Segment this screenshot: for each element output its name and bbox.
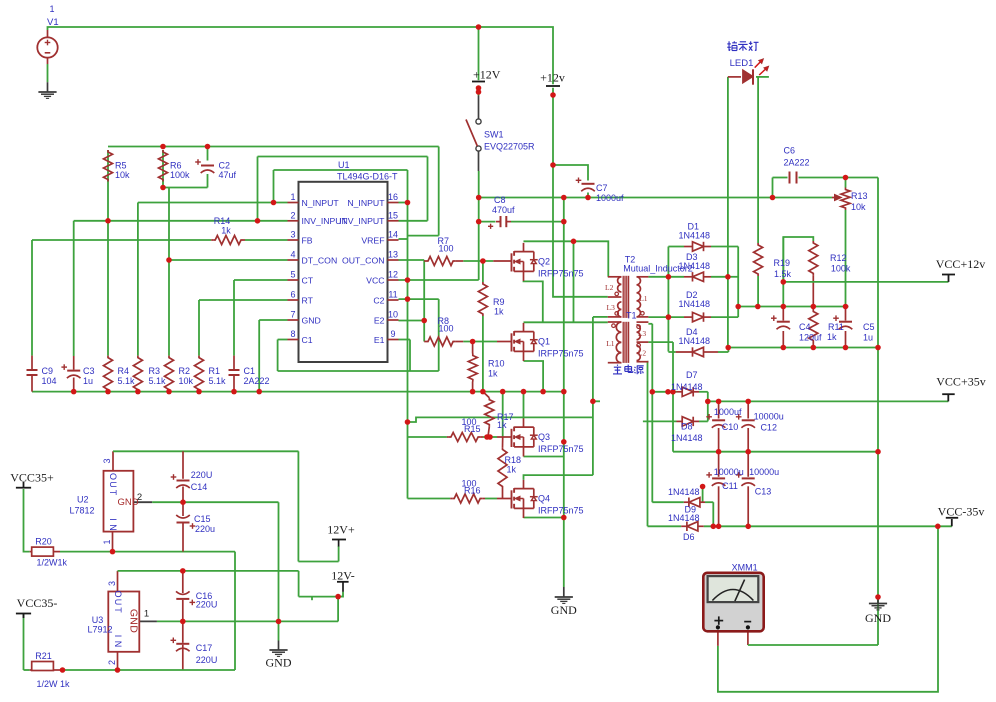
svg-text:1000uf: 1000uf — [714, 407, 742, 417]
svg-text:4: 4 — [290, 250, 295, 260]
svg-text:R11: R11 — [828, 322, 844, 332]
svg-text:RT: RT — [302, 295, 314, 305]
svg-text:N_INPUT: N_INPUT — [347, 198, 385, 208]
svg-text:CT: CT — [302, 275, 314, 285]
svg-text:1N4148: 1N4148 — [679, 231, 711, 241]
svg-text:N: N — [127, 617, 139, 625]
svg-text:220U: 220U — [196, 655, 218, 665]
svg-text:EVQ22705R: EVQ22705R — [484, 142, 535, 152]
svg-text:C4: C4 — [799, 322, 811, 332]
svg-text:R10: R10 — [488, 359, 505, 369]
svg-text:9: 9 — [390, 329, 395, 339]
svg-text:2: 2 — [107, 660, 117, 665]
svg-text:C1: C1 — [302, 335, 313, 345]
svg-text:I: I — [113, 635, 123, 638]
svg-text:C12: C12 — [760, 423, 777, 433]
svg-text:1: 1 — [290, 192, 295, 202]
svg-text:10000u: 10000u — [749, 467, 779, 477]
svg-text:L7812: L7812 — [69, 506, 94, 516]
svg-text:5: 5 — [290, 270, 295, 280]
svg-text:R4: R4 — [118, 366, 130, 376]
svg-text:16: 16 — [388, 192, 398, 202]
svg-text:1u: 1u — [863, 333, 873, 343]
svg-text:Q1: Q1 — [538, 337, 550, 347]
svg-text:U2: U2 — [77, 495, 89, 505]
svg-text:IRFP75n75: IRFP75n75 — [538, 269, 584, 279]
svg-text:1N4148: 1N4148 — [671, 433, 703, 443]
svg-text:FB: FB — [302, 235, 313, 245]
svg-text:100k: 100k — [170, 170, 190, 180]
svg-text:T1: T1 — [626, 311, 637, 321]
svg-text:R6: R6 — [170, 161, 182, 171]
svg-text:L2: L2 — [638, 349, 647, 358]
svg-text:C3: C3 — [83, 366, 95, 376]
svg-text:5.1k: 5.1k — [118, 376, 136, 386]
svg-text:R18: R18 — [505, 455, 522, 465]
svg-text:IRFP75n75: IRFP75n75 — [538, 506, 584, 516]
svg-text:L3: L3 — [638, 329, 647, 338]
svg-text:Mutual_Inductor2: Mutual_Inductor2 — [623, 264, 693, 274]
svg-text:10k: 10k — [115, 170, 130, 180]
svg-text:E2: E2 — [374, 315, 385, 325]
svg-text:C6: C6 — [784, 146, 796, 156]
svg-text:C1: C1 — [244, 366, 256, 376]
svg-text:3: 3 — [107, 581, 117, 586]
svg-text:1000uf: 1000uf — [596, 193, 624, 203]
svg-text:C2: C2 — [219, 161, 231, 171]
svg-text:R2: R2 — [179, 366, 191, 376]
svg-text:47uf: 47uf — [219, 170, 237, 180]
svg-text:104: 104 — [42, 376, 57, 386]
svg-text:N_INPUT: N_INPUT — [302, 198, 340, 208]
svg-text:R12: R12 — [830, 253, 847, 263]
svg-text:GND: GND — [551, 603, 577, 617]
svg-text:D7: D7 — [686, 370, 698, 380]
svg-text:1N4148: 1N4148 — [679, 336, 711, 346]
svg-text:R9: R9 — [493, 297, 505, 307]
svg-text:VCC35-: VCC35- — [17, 596, 58, 610]
svg-text:IRFP75n75: IRFP75n75 — [538, 349, 584, 359]
svg-text:D: D — [127, 625, 139, 633]
svg-text:R5: R5 — [115, 161, 127, 171]
svg-text:C13: C13 — [755, 487, 772, 497]
svg-text:12: 12 — [388, 270, 398, 280]
svg-text:G: G — [127, 609, 139, 617]
svg-text:L2: L2 — [605, 283, 614, 292]
svg-text:C17: C17 — [196, 643, 213, 653]
svg-text:XMM1: XMM1 — [732, 563, 758, 573]
svg-text:1k: 1k — [488, 369, 498, 379]
svg-text:13: 13 — [388, 250, 398, 260]
svg-text:VCC+35v: VCC+35v — [936, 375, 985, 389]
svg-text:O: O — [113, 590, 123, 597]
svg-text:L3: L3 — [607, 303, 616, 312]
svg-text:R21: R21 — [35, 651, 52, 661]
svg-text:GND: GND — [302, 315, 321, 325]
svg-text:120uf: 120uf — [799, 333, 822, 343]
svg-text:L1: L1 — [606, 339, 615, 348]
svg-text:12V+: 12V+ — [327, 523, 355, 537]
svg-text:C15: C15 — [194, 514, 211, 524]
svg-text:1: 1 — [102, 539, 112, 544]
svg-text:10k: 10k — [179, 376, 194, 386]
svg-text:100k: 100k — [831, 264, 851, 274]
svg-text:R3: R3 — [149, 366, 161, 376]
svg-text:C10: C10 — [722, 422, 739, 432]
svg-text:1N4148: 1N4148 — [668, 513, 700, 523]
svg-text:+12V: +12V — [473, 68, 501, 82]
svg-text:C9: C9 — [42, 366, 54, 376]
svg-text:Q4: Q4 — [538, 494, 550, 504]
svg-text:1k: 1k — [507, 465, 517, 475]
svg-text:C8: C8 — [494, 195, 506, 205]
svg-text:10000u: 10000u — [754, 412, 784, 422]
svg-text:U1: U1 — [338, 160, 350, 170]
svg-text:R13: R13 — [851, 191, 868, 201]
svg-text:7: 7 — [290, 310, 295, 320]
svg-text:5.1k: 5.1k — [149, 376, 167, 386]
svg-text:1k: 1k — [221, 226, 231, 236]
svg-text:GND: GND — [117, 497, 138, 508]
svg-text:220u: 220u — [195, 524, 215, 534]
svg-text:+12v: +12v — [540, 71, 565, 85]
svg-text:10000u: 10000u — [714, 467, 744, 477]
svg-text:470uf: 470uf — [492, 205, 515, 215]
svg-text:220U: 220U — [191, 470, 213, 480]
svg-text:N: N — [113, 641, 123, 648]
svg-text:100: 100 — [439, 244, 454, 254]
svg-text:12V-: 12V- — [331, 569, 355, 583]
svg-text:1: 1 — [50, 4, 55, 14]
svg-text:T: T — [113, 607, 123, 613]
svg-text:R16: R16 — [464, 486, 481, 496]
svg-text:1N4148: 1N4148 — [668, 487, 700, 497]
svg-text:3: 3 — [102, 458, 112, 463]
svg-text:14: 14 — [388, 230, 398, 240]
svg-text:LED1: LED1 — [730, 58, 754, 69]
svg-text:100: 100 — [439, 324, 454, 334]
svg-text:U: U — [113, 599, 123, 606]
svg-text:DT_CON: DT_CON — [302, 255, 338, 265]
svg-text:VREF: VREF — [361, 235, 384, 245]
svg-text:SW1: SW1 — [484, 130, 504, 140]
svg-text:Q2: Q2 — [538, 257, 550, 267]
svg-text:GND: GND — [865, 611, 891, 625]
svg-text:V1: V1 — [47, 17, 59, 28]
svg-text:VCC: VCC — [366, 275, 384, 285]
svg-text:D8: D8 — [681, 422, 693, 432]
svg-text:10: 10 — [388, 310, 398, 320]
svg-text:O: O — [108, 473, 118, 480]
svg-text:8: 8 — [290, 329, 295, 339]
svg-text:R20: R20 — [35, 537, 52, 547]
svg-text:I: I — [108, 518, 118, 521]
svg-text:C2: C2 — [373, 295, 384, 305]
svg-text:1/2W 1k: 1/2W 1k — [37, 679, 71, 689]
svg-text:3: 3 — [290, 230, 295, 240]
svg-text:C11: C11 — [722, 481, 738, 491]
svg-text:R1: R1 — [209, 366, 221, 376]
svg-text:U: U — [108, 481, 118, 488]
svg-text:INV_INPUT: INV_INPUT — [339, 216, 385, 226]
svg-text:1/2W1k: 1/2W1k — [37, 558, 68, 568]
svg-text:L1: L1 — [639, 294, 648, 303]
svg-text:5.1k: 5.1k — [209, 376, 227, 386]
svg-text:GND: GND — [266, 656, 292, 670]
svg-text:OUT_CON: OUT_CON — [342, 255, 384, 265]
svg-text:T: T — [108, 490, 118, 496]
svg-text:N: N — [108, 524, 118, 531]
svg-text:C5: C5 — [863, 322, 875, 332]
svg-text:U3: U3 — [92, 615, 104, 625]
svg-text:R19: R19 — [774, 258, 791, 268]
svg-text:10k: 10k — [851, 202, 866, 212]
svg-text:C7: C7 — [596, 183, 608, 193]
svg-text:11: 11 — [388, 290, 397, 300]
svg-text:2A222: 2A222 — [244, 376, 270, 386]
svg-text:VCC35+: VCC35+ — [10, 471, 54, 485]
svg-text:E1: E1 — [374, 335, 385, 345]
svg-text:1k: 1k — [494, 307, 504, 317]
svg-text:R15: R15 — [464, 424, 481, 434]
svg-text:VCC+12v: VCC+12v — [936, 257, 985, 271]
svg-text:2A222: 2A222 — [784, 158, 810, 168]
svg-text:C14: C14 — [191, 482, 208, 492]
svg-text:TL494G-D16-T: TL494G-D16-T — [337, 172, 398, 182]
svg-text:1N4148: 1N4148 — [679, 299, 711, 309]
svg-text:6: 6 — [290, 290, 295, 300]
svg-text:2: 2 — [137, 492, 142, 503]
svg-text:1.5k: 1.5k — [774, 269, 792, 279]
svg-text:15: 15 — [388, 210, 398, 220]
svg-text:Q3: Q3 — [538, 432, 550, 442]
svg-text:L7912: L7912 — [87, 625, 112, 635]
svg-text:1u: 1u — [83, 376, 93, 386]
svg-text:1: 1 — [144, 609, 149, 620]
svg-text:VCC-35v: VCC-35v — [938, 505, 985, 519]
svg-text:220U: 220U — [196, 600, 218, 610]
svg-text:IRFP75n75: IRFP75n75 — [538, 444, 584, 454]
svg-text:1k: 1k — [497, 420, 507, 430]
svg-text:1N4148: 1N4148 — [671, 382, 703, 392]
svg-text:1k: 1k — [827, 332, 837, 342]
svg-text:2: 2 — [290, 210, 295, 220]
svg-text:R14: R14 — [214, 216, 231, 226]
svg-text:D6: D6 — [683, 532, 695, 542]
